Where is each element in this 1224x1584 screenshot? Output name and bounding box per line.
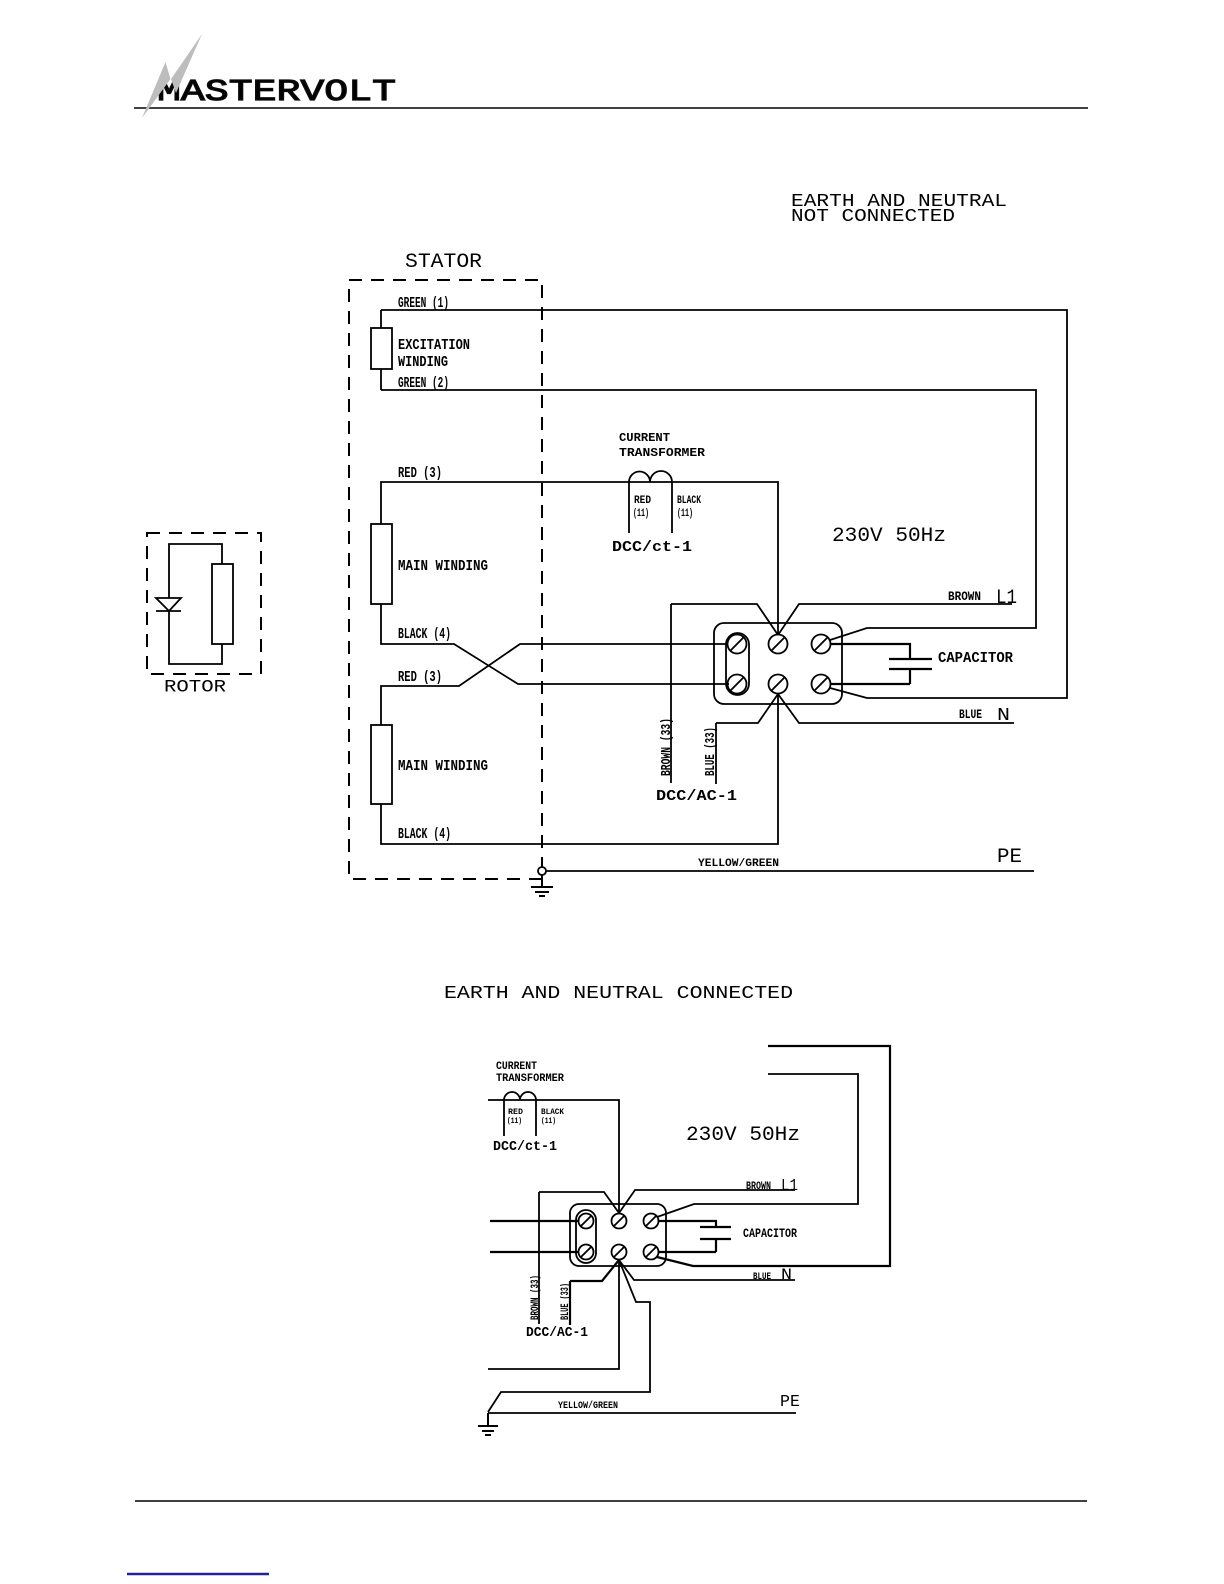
svg-text:230V 50Hz: 230V 50Hz bbox=[686, 1124, 800, 1147]
svg-text:RED (3): RED (3) bbox=[398, 669, 442, 686]
svg-text:PE: PE bbox=[997, 846, 1022, 869]
svg-text:DCC/AC-1: DCC/AC-1 bbox=[526, 1325, 588, 1341]
svg-text:L1: L1 bbox=[781, 1177, 798, 1196]
svg-text:EARTH AND NEUTRAL CONNECTED: EARTH AND NEUTRAL CONNECTED bbox=[444, 984, 793, 1004]
svg-text:MASTERVOLT: MASTERVOLT bbox=[157, 75, 396, 110]
svg-text:BLUE (33): BLUE (33) bbox=[703, 727, 719, 776]
svg-text:PE: PE bbox=[780, 1393, 800, 1412]
svg-text:STATOR: STATOR bbox=[405, 251, 482, 274]
svg-text:YELLOW/GREEN: YELLOW/GREEN bbox=[698, 858, 779, 870]
svg-text:RED: RED bbox=[634, 495, 651, 507]
svg-text:BROWN (33): BROWN (33) bbox=[659, 718, 675, 776]
svg-text:CAPACITOR: CAPACITOR bbox=[743, 1226, 797, 1241]
svg-text:GREEN (1): GREEN (1) bbox=[398, 295, 449, 312]
svg-text:EXCITATION: EXCITATION bbox=[398, 337, 470, 354]
svg-text:BROWN: BROWN bbox=[746, 1181, 771, 1193]
svg-text:N: N bbox=[997, 706, 1010, 726]
svg-text:DCC/ct-1: DCC/ct-1 bbox=[612, 539, 692, 556]
svg-text:MAIN WINDING: MAIN WINDING bbox=[398, 758, 488, 775]
svg-text:CURRENT: CURRENT bbox=[619, 431, 670, 445]
svg-text:NOT CONNECTED: NOT CONNECTED bbox=[791, 207, 955, 227]
svg-text:BROWN: BROWN bbox=[948, 589, 981, 604]
svg-text:(11): (11) bbox=[541, 1116, 556, 1126]
svg-text:230V 50Hz: 230V 50Hz bbox=[832, 525, 946, 548]
svg-text:BLUE (33): BLUE (33) bbox=[560, 1283, 572, 1320]
svg-text:BROWN (33): BROWN (33) bbox=[530, 1275, 542, 1320]
svg-text:BLACK (4): BLACK (4) bbox=[398, 626, 451, 643]
svg-text:MAIN WINDING: MAIN WINDING bbox=[398, 558, 488, 575]
svg-text:DCC/ct-1: DCC/ct-1 bbox=[493, 1140, 557, 1155]
svg-text:BLACK (4): BLACK (4) bbox=[398, 826, 451, 843]
svg-text:YELLOW/GREEN: YELLOW/GREEN bbox=[558, 1400, 618, 1412]
svg-text:ROTOR: ROTOR bbox=[164, 678, 227, 698]
svg-text:RED (3): RED (3) bbox=[398, 465, 442, 482]
svg-text:CURRENT: CURRENT bbox=[496, 1061, 537, 1073]
svg-text:TRANSFORMER: TRANSFORMER bbox=[496, 1073, 564, 1085]
svg-text:DCC/AC-1: DCC/AC-1 bbox=[656, 788, 737, 805]
svg-text:BLACK: BLACK bbox=[677, 495, 701, 507]
svg-text:CAPACITOR: CAPACITOR bbox=[938, 650, 1013, 667]
svg-text:(11): (11) bbox=[677, 508, 693, 520]
svg-text:(11): (11) bbox=[633, 508, 649, 520]
svg-text:L1: L1 bbox=[996, 587, 1017, 610]
svg-text:WINDING: WINDING bbox=[398, 354, 448, 371]
svg-text:BLUE: BLUE bbox=[959, 707, 982, 722]
svg-text:TRANSFORMER: TRANSFORMER bbox=[619, 446, 706, 460]
svg-text:BLUE: BLUE bbox=[753, 1272, 771, 1283]
svg-text:GREEN (2): GREEN (2) bbox=[398, 375, 449, 392]
svg-text:(11): (11) bbox=[507, 1116, 522, 1126]
svg-text:N: N bbox=[781, 1266, 792, 1284]
